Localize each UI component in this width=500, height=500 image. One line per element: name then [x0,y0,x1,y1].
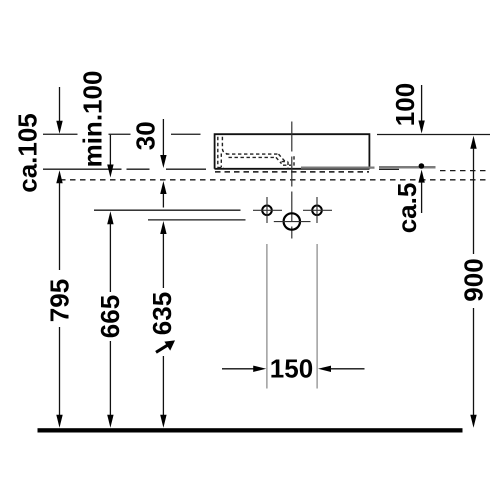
countertop level line left [43,168,206,170]
svg-text:30: 30 [131,121,161,150]
dimension min.100 arrow [107,135,113,178]
right small hole [312,206,322,216]
left small hole [262,206,272,216]
countertop gray segment middle [301,166,375,168]
svg-text:100: 100 [390,83,420,126]
svg-text:ca.5: ca.5 [392,183,422,234]
leader arrow for 635 [156,340,175,352]
svg-text:ca.105: ca.105 [13,113,43,193]
dimension 100 arrow [418,85,424,134]
basin bottom edge [215,168,370,170]
dimension 795 line [56,170,62,428]
floor line [38,428,463,432]
countertop right dark under-edge [379,168,399,170]
vertical centerline [291,122,293,239]
svg-text:900: 900 [458,258,488,301]
svg-text:635: 635 [147,292,177,335]
long dashed reference line [60,179,490,181]
large center hole [284,213,300,229]
svg-text:min.100: min.100 [78,71,108,168]
svg-text:150: 150 [270,353,313,383]
dimension 665 line [107,211,113,428]
dimension 900 line [470,136,476,428]
svg-text:665: 665 [95,295,125,338]
dimension 635 line [160,221,166,428]
under-basin contact dashes [215,171,369,173]
upper hole line [94,209,241,211]
basin outline [215,134,370,169]
dimension 30 arrows [160,119,166,208]
lower hole line [148,219,246,221]
dimension ca.105 upper arrow [56,87,62,134]
dimension ca.5 dot and arrow [418,163,424,213]
basin rim level line right segment [377,134,490,136]
dimension 150 arrows [222,366,365,372]
countertop gray segment right [379,166,436,169]
hole extension lines down [267,244,317,389]
svg-text:795: 795 [44,279,74,322]
basin rim level line left segments [43,133,201,135]
basin interior hidden profile [218,137,294,169]
right fine dashes at counter level [440,170,490,172]
